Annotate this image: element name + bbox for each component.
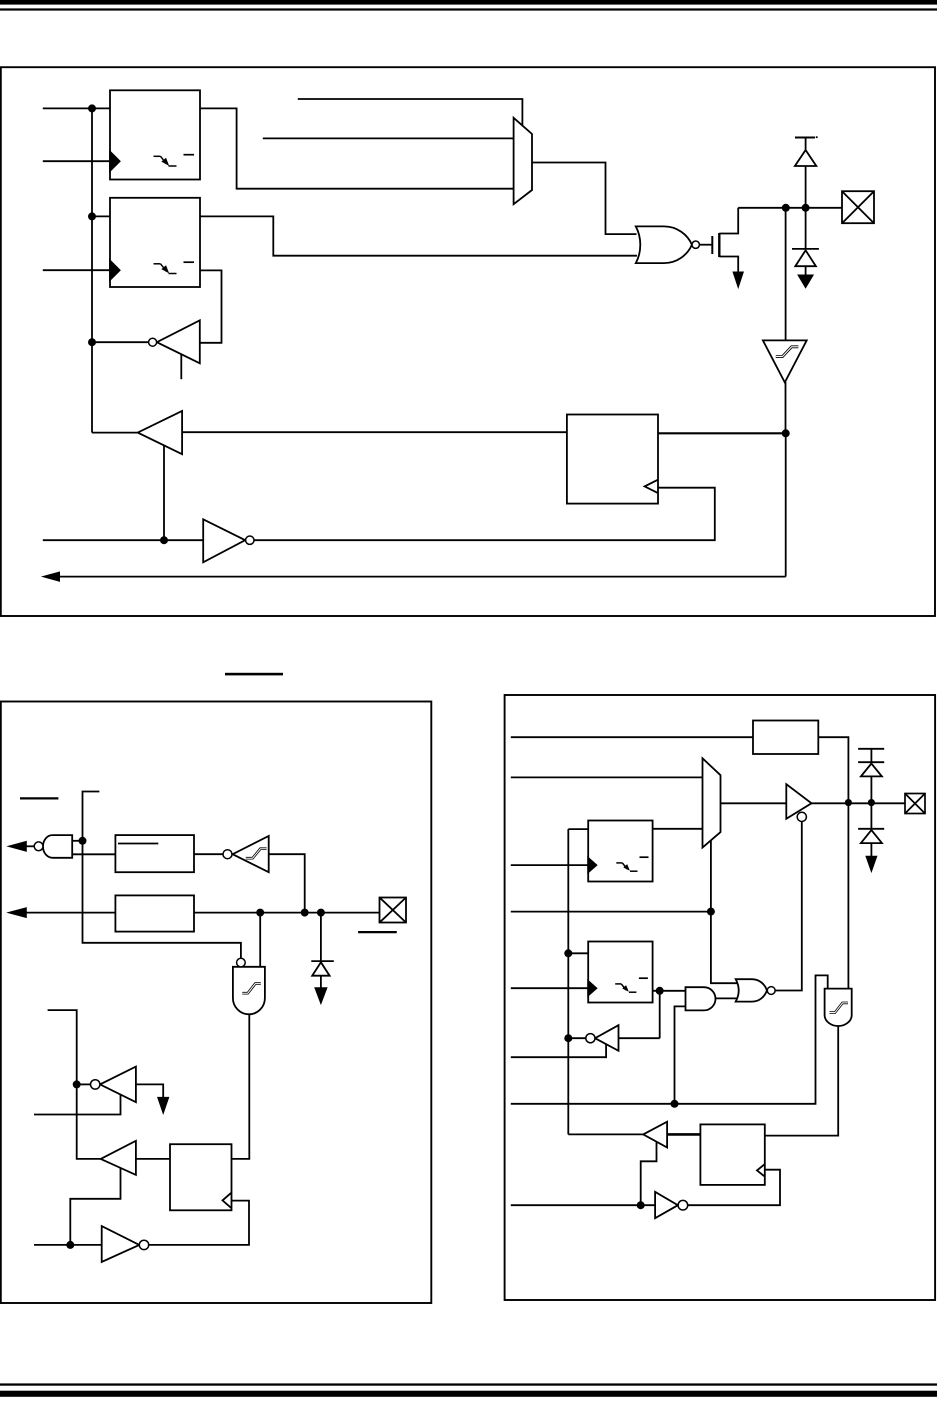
wire: ST2 input from pin node — [269, 854, 305, 912]
Vss arrow under D5 — [866, 856, 877, 871]
junction dot rail/tris input — [88, 212, 96, 220]
wire: B2 enable path — [70, 1168, 120, 1245]
junction dot B2 enable — [66, 1241, 74, 1249]
wire: G8 output to NOR — [716, 997, 738, 999]
wire: G2 output to FF1 clock — [254, 488, 715, 541]
wire: bus rail vertical — [91, 108, 93, 432]
clock wedge of U1 — [110, 152, 120, 171]
wire: G9 output to B3 enable — [775, 821, 802, 990]
footer rule thin — [0, 1383, 937, 1385]
Q-bar overline in U2 — [184, 261, 195, 263]
inverter G2 (RD inverter) — [203, 519, 245, 562]
inverter G3 (tris inverter) — [157, 320, 200, 363]
wire: G8 lower input — [675, 1006, 686, 1103]
overline top-left signal — [20, 797, 58, 799]
schmitt AND gate G5 (down pointing) — [233, 967, 265, 1015]
read buffer B1 — [138, 411, 182, 454]
Vss arrow at Q1 source — [733, 272, 743, 288]
junction dot ST2 — [301, 909, 309, 917]
diode D1 to Vdd — [805, 138, 807, 150]
wire: G3 output to rail — [92, 341, 149, 343]
junction dot gate input — [256, 909, 264, 917]
wire: mux bottom to NOR top input — [711, 841, 737, 984]
latch box L1 — [115, 835, 194, 872]
footer rule thick — [0, 1391, 937, 1397]
wire: G3 enable stub — [180, 355, 182, 380]
wire: top line into mux — [298, 99, 523, 126]
junction dot G12 input — [637, 1201, 645, 1209]
clock wedge of L3 — [588, 858, 596, 872]
B3 enable bubble — [797, 812, 806, 821]
wire: L4 output to AND gate — [653, 990, 686, 992]
wire: output line arrow to left — [26, 912, 115, 914]
schmitt trigger ST1 (input buffer) — [785, 208, 787, 341]
falling-edge icon in U2 — [154, 263, 161, 265]
wire: input line to mux fig3 — [511, 776, 703, 778]
wire: FF node to flip-flop Q side — [658, 432, 786, 434]
wire: U1 Q output to mux — [200, 108, 514, 188]
wire: RD stub to rail2 — [48, 1010, 101, 1159]
wire: B1 output to bus rail — [92, 432, 138, 434]
wire: B1 enable stub down — [163, 446, 165, 541]
figure 1 frame — [1, 67, 935, 616]
latch box L3 — [588, 821, 652, 882]
FF2 clock wedge — [223, 1193, 232, 1209]
wire: R1 to pin node — [818, 737, 848, 988]
inverter G6 — [100, 1067, 136, 1103]
AND gate G8 — [686, 987, 716, 1010]
wire: L3 output to mux — [653, 828, 703, 830]
G7 output bubble — [139, 1240, 148, 1249]
wire: tris latch input from rail — [92, 215, 110, 217]
falling-edge icon in L3 — [616, 862, 622, 864]
wire: WR clock input to tris latch — [43, 269, 110, 271]
wire: G4 top input — [72, 840, 82, 842]
mux M2 — [703, 758, 721, 847]
inverter G7 — [102, 1226, 140, 1262]
wire: NOR output to transistor gate — [699, 244, 712, 246]
junction dot FF node — [782, 429, 790, 437]
latch U2 (tris latch) — [110, 198, 200, 287]
hysteresis glyph in G11 — [830, 1003, 849, 1013]
hysteresis glyph in ST2 — [246, 849, 267, 859]
wire: pin line — [738, 207, 842, 209]
junction dot line5 — [671, 1100, 679, 1108]
ST2 bubble — [223, 850, 232, 859]
wire: G4 bottom input from latch — [72, 853, 115, 855]
G2 output bubble — [246, 536, 254, 544]
wire: RD input line fig3 — [511, 1204, 655, 1206]
output buffer B3 — [786, 784, 811, 819]
Vss arrow at G6 input — [158, 1097, 169, 1113]
junction dot L4 output — [656, 987, 664, 995]
wire: input line 5 — [511, 975, 828, 1103]
wire: L4 output to inverter G10 — [619, 991, 660, 1038]
G10 output bubble — [586, 1034, 595, 1043]
diode D5 to Vss — [870, 803, 872, 829]
figure 2 frame — [1, 702, 432, 1304]
wire: G4 output — [26, 845, 34, 847]
inverter G12 — [655, 1192, 678, 1218]
wire: G6 input to Vss — [136, 1084, 163, 1098]
header rule thin — [0, 8, 937, 10]
junction dot rail3/L4 — [564, 949, 572, 957]
clock wedge of U2 — [110, 261, 120, 280]
wire: pin line fig2 — [194, 912, 380, 914]
latch U1 (data latch) — [110, 90, 200, 179]
overline in L4 — [639, 977, 648, 979]
clock wedge of L4 — [588, 981, 596, 995]
junction dot pullup — [845, 799, 852, 806]
read buffer B4 — [643, 1122, 667, 1148]
diode D4 to Vdd — [870, 749, 872, 762]
hysteresis glyph in ST1 — [776, 347, 799, 357]
transistor Q1 gate bar — [711, 236, 713, 254]
wire: Q1 source to Vss — [719, 257, 738, 273]
wire: B4 enable path — [641, 1142, 657, 1205]
latch box L4 — [588, 942, 652, 1003]
wire: G11 output to FF3 — [765, 1027, 838, 1136]
wire: RD input line — [43, 539, 203, 541]
Vdd bar fig3 — [858, 748, 884, 750]
arrowhead output left fig2 — [8, 908, 26, 918]
schmitt inverter ST2 — [233, 836, 269, 872]
overline of figure 2 title signal — [225, 673, 283, 676]
NOR output bubble — [692, 241, 699, 248]
falling-edge icon in U1 — [154, 155, 161, 157]
wire: buffered output to left — [59, 576, 786, 578]
junction dot diode pair — [868, 799, 875, 806]
Vss arrow under D3 — [315, 988, 327, 1004]
G3 output bubble — [149, 338, 157, 346]
wire: FF3 to B4 (bold) — [667, 1133, 700, 1136]
wire: G5 output down to FF2 — [232, 1014, 250, 1159]
G6 output bubble — [91, 1080, 100, 1089]
wire: input line 4 to G10 enable — [511, 1044, 606, 1057]
Q-bar overline in U1 — [184, 154, 195, 156]
wire: U2 Qbar to G3 input — [200, 270, 222, 342]
diode D2 to Vss — [805, 208, 807, 249]
pad P1 (I/O pin) — [842, 191, 874, 223]
NOR gate G1 — [636, 226, 692, 263]
pad P2 (RA4 pin) — [380, 898, 407, 923]
wire: G5 right input from pin node — [259, 913, 261, 967]
wire: ST1 output down to FF node — [785, 382, 787, 433]
junction dot rail/NAND — [79, 837, 87, 845]
NOR gate G9 — [736, 979, 767, 1001]
inverter G10 — [595, 1025, 619, 1051]
hysteresis glyph in G5 — [242, 984, 260, 994]
latch box L2 — [115, 895, 194, 931]
wire: rail2 to G6 bubble — [77, 1083, 91, 1085]
junction dot diode — [317, 909, 325, 917]
G12 output bubble — [678, 1200, 688, 1210]
flip-flop FF2 — [170, 1144, 232, 1210]
wire: enable line to G6 — [34, 1095, 121, 1115]
overline inside L1 — [118, 843, 158, 845]
wire: data bus input to data latch — [43, 107, 110, 109]
Vdd rail bar — [795, 137, 815, 139]
transistor Q1 channel bar — [718, 233, 720, 257]
wire: G10 output to rail3 — [568, 1037, 586, 1039]
wire: data bus rail with stub — [83, 792, 241, 960]
wire: rail3 bottom to buffer B4 — [568, 1133, 643, 1135]
wire: second line into mux — [263, 137, 514, 139]
G4 output bubble — [34, 842, 43, 851]
wire: WR clock input to data latch — [43, 160, 110, 162]
diode D3 to Vss — [320, 913, 322, 962]
arrowhead G4 output — [8, 841, 26, 851]
FF1 clock wedge — [645, 480, 658, 493]
junction dot rail/bus input — [88, 104, 96, 112]
wire: clock input line to L3 — [511, 864, 588, 866]
G5 input bubble — [237, 958, 246, 967]
wire: rail3 top to latch L3 — [568, 829, 588, 1134]
flip-flop FF1 — [567, 415, 658, 504]
wire: Vdd line to pullup resistor — [511, 736, 753, 738]
read buffer B2 — [101, 1141, 136, 1175]
overline pin label — [358, 931, 397, 933]
Vss arrow under D2 — [798, 275, 813, 288]
junction dot pin A — [782, 204, 790, 212]
wire: mux output to buffer — [721, 802, 787, 804]
wire: B3 to pin pad — [812, 802, 906, 804]
junction dot rail2/G6 — [73, 1080, 81, 1088]
mux M1 — [514, 118, 532, 204]
resistor R1 (weak pull-up) — [753, 721, 818, 755]
junction dot rail3/G10 — [564, 1034, 572, 1042]
wire: input line 2 with junction — [511, 911, 711, 913]
wire: Q1 drain to pin node — [719, 208, 738, 234]
wire: pin feedback down — [785, 433, 787, 576]
overline in L3 — [640, 856, 649, 858]
wire: rail3 to L4 input — [568, 952, 588, 954]
wire: FF2 to B2 — [136, 1158, 170, 1160]
junction dot pin B — [802, 204, 810, 212]
wire: G7 output to FF2 clock — [149, 1201, 249, 1245]
header rule thick — [0, 0, 937, 5]
junction dot rail/G3 — [88, 338, 96, 346]
wire: mux output to NOR — [532, 163, 637, 235]
junction dot line2/mux feed — [707, 908, 715, 916]
junction dot on RD line — [160, 536, 168, 544]
G9 output bubble — [767, 987, 775, 995]
wire: RD input line fig2 — [34, 1244, 102, 1246]
schmitt AND gate G11 — [825, 989, 852, 1026]
wire: L1 output to schmitt inverter — [194, 853, 223, 855]
wire: U2 Q output to NOR — [200, 216, 637, 255]
wire: G12 output to FF3 clock — [688, 1170, 780, 1206]
NAND gate G4 (left pointing) — [43, 835, 72, 858]
Vdd label dot — [816, 136, 818, 138]
figure 3 frame — [505, 695, 935, 1300]
FF3 clock wedge — [757, 1164, 765, 1177]
wire: clock input line to L4 — [511, 987, 588, 989]
arrowhead output left — [43, 572, 60, 581]
wire: FF1 to read buffer — [182, 431, 567, 433]
flip-flop FF3 — [700, 1124, 764, 1185]
falling-edge icon in L4 — [615, 983, 621, 985]
pad P3 — [905, 794, 925, 814]
